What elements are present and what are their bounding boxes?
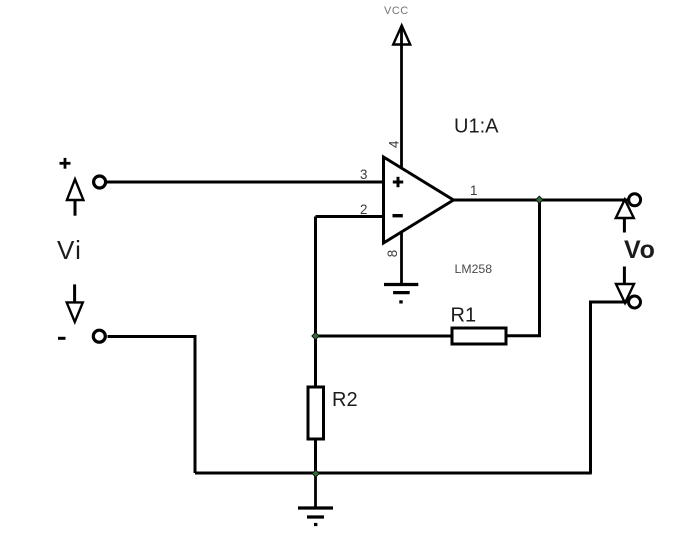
wire Vo lower to bottom — [591, 302, 628, 473]
feedback wire from output node down and left to R1 — [506, 200, 540, 336]
node junction feedback/R2 — [311, 332, 320, 341]
pin 3 wire (+ input) — [106, 181, 384, 184]
svg-text:4: 4 — [387, 140, 402, 148]
source arrow down (Vi -) — [73, 284, 76, 302]
terminal Vo upper — [629, 194, 641, 206]
svg-text:8: 8 — [385, 250, 400, 257]
svg-text:Vi: Vi — [57, 235, 82, 265]
source arrow up (Vi +) — [74, 200, 77, 216]
Vo arrow down — [623, 267, 626, 285]
svg-text:LM258: LM258 — [455, 262, 493, 276]
wire R1 left to node — [316, 335, 453, 338]
wire VCC vertical (pin 4 net) — [400, 26, 403, 167]
Vo arrow up — [623, 218, 626, 233]
resistor R2 — [308, 387, 324, 439]
power VCC arrow symbol — [393, 26, 410, 45]
terminal - input — [93, 330, 105, 342]
svg-text:2: 2 — [360, 202, 367, 217]
op-amp U1 triangle — [384, 157, 454, 243]
pin 1 output wire — [454, 199, 629, 202]
terminal + input — [94, 176, 106, 188]
ground at bottom — [314, 473, 317, 507]
wire - input to bottom — [108, 337, 196, 474]
op-amp plus marking — [393, 177, 403, 187]
bottom wire — [195, 472, 592, 475]
svg-text:R1: R1 — [451, 305, 477, 327]
node junction at output — [535, 196, 544, 205]
pin 8 wire to ground — [400, 231, 403, 284]
svg-text:U1:A: U1:A — [454, 116, 499, 138]
node junction bottom — [311, 469, 320, 478]
svg-text:3: 3 — [360, 167, 367, 182]
ground under op-amp — [384, 285, 418, 302]
input - label — [58, 337, 66, 340]
svg-text:R2: R2 — [332, 389, 358, 411]
svg-text:Vo: Vo — [624, 236, 656, 264]
svg-text:VCC: VCC — [384, 5, 409, 17]
svg-text:1: 1 — [470, 183, 477, 198]
resistor R1 — [452, 328, 506, 344]
terminal Vo lower — [629, 296, 641, 308]
pin 2 wire (- input) — [316, 215, 384, 218]
wire R2 bottom — [314, 439, 317, 474]
input + label — [60, 158, 71, 169]
wire pin2 vertical down to feedback node — [314, 217, 317, 389]
op-amp minus marking — [393, 214, 403, 217]
